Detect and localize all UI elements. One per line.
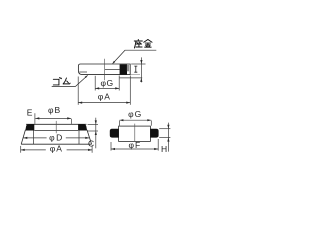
svg-text:E: E xyxy=(27,107,33,117)
dimension phiA top: text xyxy=(98,92,111,102)
label ゴム leader xyxy=(52,75,88,86)
dimension phiA bottom: arrows xyxy=(21,149,92,151)
label ゴム glyphs xyxy=(53,77,70,84)
bottom-left washer rim block right xyxy=(78,124,87,130)
washer section black xyxy=(120,64,127,74)
dimension C: text xyxy=(88,139,94,149)
bottom-right centerline xyxy=(134,124,136,142)
top view lip line xyxy=(79,71,87,73)
dimension phiB: dim line xyxy=(35,117,71,119)
dimension I: dim line xyxy=(140,57,142,82)
bottom-left centerline xyxy=(55,121,57,133)
dimension H: extension lines xyxy=(159,129,170,138)
dimension phiD: arrows xyxy=(23,137,89,139)
dimension phiG top: arrows xyxy=(95,87,119,89)
dimension phiA bottom: extension lines xyxy=(21,146,92,153)
dimension I: arrows xyxy=(140,60,142,82)
bottom-left shelf line xyxy=(34,129,78,131)
svg-text:φA: φA xyxy=(50,144,63,154)
bottom-left figure top surface xyxy=(26,123,86,125)
dimension C: extension lines xyxy=(87,124,98,131)
bottom-left outer wall left xyxy=(21,130,25,144)
dimension phiF: arrows xyxy=(111,148,158,150)
dimension H: arrows xyxy=(167,125,169,142)
top view inner step line xyxy=(105,68,120,70)
dimension phiB: extension line right xyxy=(71,119,73,124)
svg-text:φB: φB xyxy=(48,105,61,115)
bottom-right metal block right xyxy=(150,129,158,138)
svg-text:φG: φG xyxy=(128,109,142,119)
top view centerline xyxy=(104,59,106,81)
label 座金 leader arrowhead xyxy=(112,61,115,64)
label ゴム leader arrowhead xyxy=(85,75,88,78)
dimension phiG top: extension lines xyxy=(95,76,119,91)
dimension phiD: text xyxy=(49,133,64,143)
bottom-left outer wall right xyxy=(87,130,92,144)
dimension phiB: text xyxy=(48,105,61,115)
dimension phiA top: dim line xyxy=(78,102,130,104)
dimension phiG top: text xyxy=(100,78,113,88)
dimension H: dim line xyxy=(167,123,169,152)
dimension phiG bottom: arrows xyxy=(119,119,151,121)
dimension phiG bottom: extension lines xyxy=(119,121,151,126)
dimension I: text xyxy=(134,66,137,72)
dimension E: extension line xyxy=(34,113,36,124)
svg-text:φF: φF xyxy=(129,140,142,150)
svg-text:φD: φD xyxy=(49,133,64,143)
dimension phiG bottom: text xyxy=(128,109,142,119)
dimension E: text xyxy=(27,107,33,117)
dimension I: extension lines xyxy=(130,64,145,75)
dimension phiA bottom: text xyxy=(50,144,63,154)
dimension C: arrows xyxy=(95,120,97,135)
washer outer gray strip xyxy=(127,65,129,72)
bottom-left inner wall right xyxy=(78,130,80,144)
dimension C: dim line xyxy=(95,118,97,149)
dimension phiF: text xyxy=(129,140,142,150)
svg-text:φG: φG xyxy=(100,78,113,88)
svg-text:φA: φA xyxy=(98,92,111,102)
bottom-right rubber core outline xyxy=(119,126,151,141)
dimension phiA bottom: dim line xyxy=(21,149,92,151)
dimension phiF: dim line xyxy=(111,148,158,150)
dimension phiB: arrows xyxy=(35,117,71,119)
svg-text:H: H xyxy=(161,144,167,154)
label 座金 glyphs xyxy=(134,39,152,48)
bottom-left washer rim block left xyxy=(25,124,34,130)
svg-text:C: C xyxy=(88,139,94,149)
label 座金 leader xyxy=(113,50,157,63)
dimension phiA top: extension lines xyxy=(78,76,130,105)
bottom-left inner wall left xyxy=(33,130,35,144)
bottom-right metal block left xyxy=(110,129,119,138)
top view rubber body outline xyxy=(78,64,130,75)
dimension phiD: dim line xyxy=(23,137,89,139)
dimension phiG bottom: dim line xyxy=(119,119,151,121)
dimension phiF: extension lines xyxy=(111,139,158,151)
dimension phiG top: dim line xyxy=(95,87,119,89)
washer flange bottom line xyxy=(120,77,143,79)
dimension H: text xyxy=(161,144,167,154)
dimension phiA top: arrows xyxy=(78,102,130,104)
bottom-left bottom edge xyxy=(21,143,91,145)
